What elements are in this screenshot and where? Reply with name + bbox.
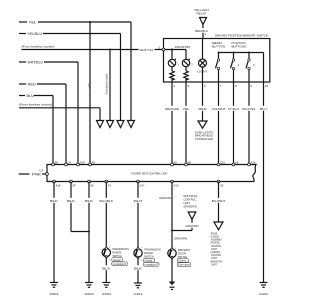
label BLK: [85, 198, 94, 203]
lamp LIGHT: [199, 39, 207, 83]
svg-text:A6: A6: [235, 160, 239, 164]
svg-text:A17: A17: [140, 183, 145, 187]
label BLK: [102, 265, 111, 270]
svg-text:Door open: Door open: [178, 264, 190, 267]
svg-text:RED: RED: [199, 107, 207, 111]
svg-text:GRN/ORN: GRN/ORN: [159, 196, 172, 200]
svg-text:(From keyless socket): (From keyless socket): [106, 74, 109, 94]
label GRN/ORN below triangle: [185, 223, 199, 228]
label BLU/WHT: [211, 198, 226, 203]
svg-text:C401: C401: [134, 292, 143, 296]
label WHT/YEL: [139, 47, 155, 52]
pin C4 left edge: [46, 173, 49, 176]
svg-text:CONTROLLER: CONTROLLER: [195, 137, 213, 141]
node bus dot 3: [248, 52, 250, 54]
connector triangle 4: [128, 121, 135, 128]
svg-text:SWITCH: SWITCH: [112, 254, 122, 258]
wire YEL vertical to A9: [89, 22, 91, 165]
node bus dot 1: [218, 52, 220, 54]
ground G503: [85, 283, 93, 288]
svg-text:BUTTONS: BUTTONS: [232, 45, 247, 49]
label TRANSMISSION RANGE SWITCH 2: [144, 248, 161, 259]
transmission range switch 1: [102, 247, 110, 258]
ground G502: [50, 283, 58, 288]
switch memo button: [216, 53, 220, 83]
wire YEL/WHT pin7 to C10: [218, 82, 220, 165]
label TAIL LIGHT RELAY: [194, 8, 209, 16]
node junction keyless: [109, 49, 111, 51]
svg-text:RED: RED: [28, 82, 37, 86]
svg-text:A18: A18: [56, 183, 61, 187]
svg-text:UNIT: UNIT: [184, 201, 191, 205]
svg-text:A7: A7: [108, 183, 112, 187]
svg-text:Closed :: Closed :: [113, 259, 122, 262]
wire BLU/WHT A2: [218, 182, 220, 223]
svg-text:B8: B8: [188, 160, 192, 164]
pin C4 top: [65, 163, 68, 166]
connector triangle A2 units: [214, 222, 223, 230]
svg-text:8: 8: [235, 84, 237, 88]
pin A9: [89, 163, 92, 166]
svg-text:BLU/BLK: BLU/BLK: [100, 199, 114, 203]
svg-text:YEL/WHT: YEL/WHT: [212, 107, 226, 111]
label TRANSMISSION RANGE SWITCH 1: [112, 247, 129, 258]
svg-text:YEL: YEL: [87, 81, 91, 88]
svg-text:DRIVER'S: DRIVER'S: [178, 248, 190, 252]
connector triangle dash lights: [198, 121, 207, 128]
pin B8: [185, 163, 188, 166]
wire A10 continues to door switch: [171, 231, 173, 250]
wire indicators feed: [165, 49, 186, 51]
svg-text:6: 6: [204, 84, 206, 88]
label closed condition boxed 1: [112, 258, 128, 266]
svg-text:TRANSMISSION: TRANSMISSION: [112, 247, 129, 251]
svg-text:CONTROL: CONTROL: [184, 198, 197, 202]
svg-text:GRN/ORN: GRN/ORN: [174, 236, 187, 240]
pin B2: [171, 163, 174, 166]
label BLK: [134, 265, 143, 270]
svg-text:BLK: BLK: [67, 199, 75, 203]
pin A2: [217, 180, 220, 183]
svg-text:GRN/ORN: GRN/ORN: [186, 224, 199, 228]
wire YEL/BLU: [19, 34, 121, 121]
pin 2 memory switch: [162, 48, 165, 51]
svg-text:A19: A19: [80, 160, 85, 164]
svg-text:MULTIPLEX: MULTIPLEX: [184, 194, 198, 198]
label MULTIPLEX CONTROL UNIT (DRIVER'S): [184, 194, 198, 208]
wire drop to connector triangle: [109, 50, 111, 121]
wire drop to indicator 2: [185, 50, 187, 60]
ground body door switch: [169, 282, 176, 290]
label closed condition boxed 2: [144, 258, 160, 266]
wire WHT A17 to transmission range switch 2: [137, 182, 139, 249]
svg-text:A9: A9: [92, 160, 96, 164]
svg-text:TRANSMISSION: TRANSMISSION: [144, 248, 161, 252]
wire drop to indicator 1: [171, 50, 173, 60]
svg-text:5: 5: [188, 84, 190, 88]
pin C10: [217, 163, 220, 166]
connector triangle from tail light relay: [200, 18, 207, 25]
svg-text:YEL: YEL: [183, 107, 190, 111]
wire switch bus: [219, 53, 264, 83]
svg-text:(From keyless socket): (From keyless socket): [19, 103, 52, 107]
svg-text:BUTTON: BUTTON: [212, 45, 225, 49]
box power seat control unit: [47, 165, 256, 182]
svg-text:RANGE: RANGE: [144, 251, 153, 255]
pin A16: [248, 163, 251, 166]
svg-text:LIGHT: LIGHT: [198, 70, 208, 74]
pin A17: [137, 180, 140, 183]
svg-text:2: 2: [109, 260, 111, 262]
svg-text:1: 1: [238, 63, 240, 67]
wire BLU/BLK A7 to transmission range switch: [105, 182, 107, 249]
indicator lamp 1: [168, 59, 176, 67]
svg-text:YEL: YEL: [29, 20, 37, 24]
connector triangle 3: [117, 121, 124, 128]
svg-text:C4: C4: [40, 169, 44, 173]
pin A7: [105, 180, 108, 183]
wire multiplex branch: [172, 220, 192, 231]
switch position 2: [246, 53, 250, 83]
svg-text:POWER SEAT CONTROL UNIT: POWER SEAT CONTROL UNIT: [132, 171, 168, 175]
label closed condition boxed door: [177, 259, 191, 267]
node bus dot 2: [233, 52, 235, 54]
wire WHT/BLU: [19, 62, 78, 165]
svg-text:G502: G502: [50, 292, 59, 296]
svg-text:1: 1: [141, 248, 143, 250]
svg-text:4: 4: [174, 84, 176, 88]
connector triangle 1: [97, 121, 104, 128]
svg-text:BLK: BLK: [102, 266, 110, 270]
label LT BLU: [228, 106, 241, 111]
svg-text:(From keyless socket): (From keyless socket): [22, 44, 55, 48]
wire BLK A18 to G502: [53, 182, 55, 283]
svg-text:2: 2: [253, 63, 255, 67]
wire BLK B1 to G503: [88, 182, 90, 283]
label DASH LIGHTS BRIGHTNESS CONTROLLER: [195, 130, 213, 141]
svg-text:WHT: WHT: [134, 199, 143, 203]
label POSITION BUTTONS: [232, 41, 247, 48]
wire RED pin6 to dash lights controller: [202, 82, 204, 121]
svg-text:in position P: in position P: [145, 263, 159, 266]
svg-text:7: 7: [220, 84, 222, 88]
wire BLK B7 joins B1: [71, 182, 89, 232]
connector triangle multiplex: [188, 212, 196, 220]
svg-text:BLU: BLU: [260, 107, 267, 111]
wire RED: [19, 84, 66, 165]
pin A18: [53, 180, 56, 183]
pin A19: [77, 163, 80, 166]
resistor R1: [170, 67, 174, 82]
wire BLK below switch 2: [137, 257, 139, 283]
switch position 1: [231, 53, 235, 83]
label RED/GRN: [164, 106, 180, 111]
wire RED/GRN pin4 to B2: [171, 82, 173, 165]
svg-text:in position R: in position R: [113, 263, 127, 266]
svg-text:INDICATORS: INDICATORS: [175, 45, 190, 49]
svg-text:UNIT: UNIT: [211, 262, 217, 266]
label YEL: [182, 106, 190, 111]
label MEMO BUTTON: [212, 41, 225, 48]
pin A6: [232, 163, 235, 166]
svg-text:PNK: PNK: [32, 172, 42, 176]
svg-text:WHT/YEL: WHT/YEL: [140, 48, 154, 52]
svg-text:1: 1: [175, 248, 177, 250]
label WHT: [133, 198, 143, 203]
svg-text:BLU/WHT: BLU/WHT: [212, 199, 226, 203]
svg-text:(DRIVER'S): (DRIVER'S): [184, 204, 198, 208]
node junction B7/B1: [88, 231, 90, 233]
wire below door switch: [171, 258, 173, 282]
node YEL junction: [89, 21, 91, 23]
svg-text:A2: A2: [220, 183, 224, 187]
svg-text:4: 4: [205, 33, 207, 37]
wire WHT/YEL from keyless socket to memory switch: [22, 49, 164, 51]
node indicators junction: [171, 49, 173, 51]
svg-text:2: 2: [141, 260, 143, 262]
label BLK: [50, 198, 59, 203]
svg-text:YEL/BLU: YEL/BLU: [28, 32, 43, 36]
svg-text:WHT/BLU: WHT/BLU: [28, 60, 44, 64]
svg-text:Closed :: Closed :: [178, 260, 187, 263]
label DRIVER'S DOOR SWITCH: [178, 248, 190, 259]
svg-text:SWITCH: SWITCH: [178, 255, 188, 259]
svg-text:LT BLU: LT BLU: [228, 107, 239, 111]
pin A10: [171, 180, 174, 183]
label BLU/YEL: [242, 106, 257, 111]
label BLU: [260, 106, 268, 111]
indicator lamp 2: [182, 59, 190, 67]
ground C401: [134, 283, 142, 288]
label unit list: [209, 231, 222, 266]
wire PNK: [19, 173, 46, 175]
svg-text:SWITCH: SWITCH: [144, 255, 154, 259]
label RED: [198, 106, 207, 111]
svg-text:C4: C4: [68, 160, 72, 164]
wire BLK below switch 1: [105, 257, 107, 283]
svg-text:G504: G504: [102, 292, 111, 296]
label YEL/WHT: [211, 106, 227, 111]
svg-text:A10: A10: [174, 183, 179, 187]
wire keyless socket 2: [19, 108, 100, 121]
pin B7: [70, 180, 73, 183]
svg-text:RANGE: RANGE: [112, 251, 121, 255]
svg-text:G503: G503: [85, 292, 94, 296]
resistor R2: [184, 67, 188, 82]
svg-text:G401: G401: [259, 292, 268, 296]
box driving position memory switch: [164, 39, 270, 83]
svg-text:BLU/YEL: BLU/YEL: [243, 107, 256, 111]
svg-text:DRIVING POSITION MEMORY SWITCH: DRIVING POSITION MEMORY SWITCH: [215, 34, 268, 38]
svg-text:BLU: BLU: [27, 94, 35, 98]
wire GRN/ORN A10: [171, 182, 173, 231]
label BLU/BLK: [99, 198, 114, 203]
driver's door switch: [168, 248, 176, 259]
pin B9: [52, 163, 55, 166]
svg-text:RELAY: RELAY: [197, 12, 207, 16]
connector triangle 2: [107, 121, 114, 128]
svg-text:BLK: BLK: [50, 199, 58, 203]
transmission range switch 2: [134, 248, 142, 259]
ground G504: [102, 283, 110, 288]
wire RED/BLK: [202, 25, 204, 39]
svg-text:B7: B7: [73, 183, 77, 187]
wire YEL pin5 to B8: [185, 82, 187, 165]
label GRN/ORN: [159, 195, 173, 200]
svg-text:9: 9: [251, 84, 253, 88]
svg-text:2: 2: [191, 62, 193, 66]
svg-text:B1: B1: [91, 183, 95, 187]
wire BLU/YEL pin9 to A16: [248, 82, 250, 165]
svg-text:1: 1: [177, 62, 179, 66]
label BLK: [67, 198, 76, 203]
svg-text:B2: B2: [174, 160, 178, 164]
svg-text:A16: A16: [251, 160, 256, 164]
svg-text:DOOR: DOOR: [178, 251, 186, 255]
svg-text:1: 1: [109, 247, 111, 249]
svg-text:10: 10: [265, 84, 269, 88]
label RED/BLK: [195, 28, 209, 33]
wire LT BLU pin8 to A6: [233, 82, 235, 165]
pin B1: [88, 180, 91, 183]
svg-text:C10: C10: [220, 160, 225, 164]
wire YEL stub: [19, 22, 131, 121]
svg-text:BLK: BLK: [85, 199, 93, 203]
svg-text:B9: B9: [55, 160, 59, 164]
svg-text:Closed :: Closed :: [145, 259, 154, 262]
wire BLU: [19, 96, 53, 165]
node junction A10 branch: [171, 230, 173, 232]
wire BLU pin10 to ground G401: [263, 82, 265, 283]
svg-text:RED/GRN: RED/GRN: [165, 107, 179, 111]
ground G401: [260, 283, 268, 288]
svg-text:BLK: BLK: [134, 266, 142, 270]
